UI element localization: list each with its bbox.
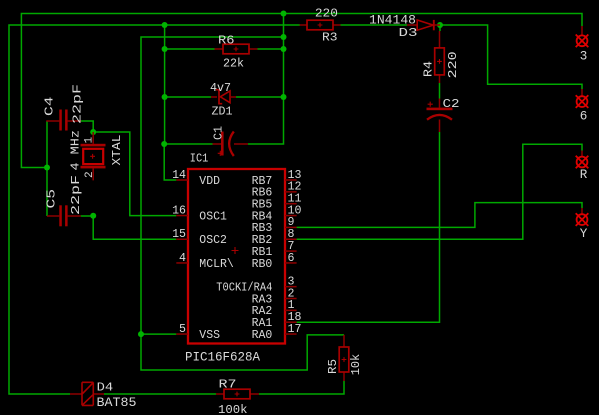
node ZD1 right [281,94,287,100]
pin 16 stub [176,215,188,217]
svg-text:4v7: 4v7 [210,81,231,95]
node XTAL1 / C4 / OSC1 [90,129,96,135]
schottky diode D4 BAT85 [70,393,104,395]
node GND y37 / vertical [281,34,287,40]
op-amp U: IC1 PIC16F628A body [188,169,285,344]
pin 10 stub [285,215,297,217]
wire R6 right wire [258,48,284,50]
node VSS junction [138,331,144,337]
svg-text:2: 2 [84,171,96,178]
svg-text:R3: R3 [322,30,338,44]
zener diode ZD1 4v7 [211,96,236,98]
svg-text:R5: R5 [326,359,340,374]
svg-text:OSC1: OSC1 [199,210,227,223]
node GND rail / vertical [281,11,287,17]
node R6 left [162,46,168,52]
pad 3 stub [581,26,583,36]
wire VSS pin 5 wire [141,333,176,335]
wire bottom rail R7 to D4 [104,393,216,395]
pin 13 stub [285,179,297,181]
svg-text:1N4148: 1N4148 [369,13,416,27]
wire IC pin 9 (RB3) to pad Y [297,203,582,228]
svg-text:D3: D3 [399,26,418,40]
svg-text:15: 15 [172,228,186,241]
node ZD1 left [162,94,168,100]
wire ZD1 left wire [165,96,211,98]
svg-text:6: 6 [288,252,295,265]
diode D3 1N4148 [407,24,440,26]
wire C5 right wire [81,215,94,217]
pin 5 stub [176,333,188,335]
pad R stub [581,151,583,157]
svg-text:C2: C2 [443,97,460,111]
svg-text:MCLR\: MCLR\ [199,258,234,271]
svg-text:22pF: 22pF [69,175,83,215]
svg-text:PIC16F628A: PIC16F628A [185,349,260,364]
svg-text:10k: 10k [349,354,363,376]
pin 17 stub [285,333,297,335]
wire VDD branch to pin 14 [164,144,176,180]
svg-text:3: 3 [580,49,588,63]
svg-text:220: 220 [315,7,338,21]
node C1 left / pin14 branch [161,141,167,147]
svg-text:17: 17 [288,323,302,336]
wire D3 junction to pad 6 [440,25,582,89]
resistor R5 [343,335,345,381]
svg-text:VSS: VSS [199,329,220,342]
wire C1 left wire [164,143,212,145]
pin 2 stub [285,298,297,300]
svg-text:C1: C1 [212,126,226,140]
pad Y stub [581,208,583,214]
pin 18 stub [285,321,297,323]
resistor R7 [216,393,259,395]
svg-text:4 MHz: 4 MHz [68,130,82,171]
pin 14 stub [176,179,188,181]
svg-text:220: 220 [446,51,460,78]
pin 15 stub [176,238,188,240]
capacitor C1 [213,143,249,145]
svg-text:100k: 100k [218,403,248,415]
svg-text:Y: Y [580,227,588,241]
svg-text:RB0: RB0 [252,258,273,271]
pin 11 stub [285,203,297,205]
capacitor C2 [439,99,441,133]
svg-text:ZD1: ZD1 [212,104,233,118]
wire R4 bottom to C2 top [439,83,441,99]
svg-text:XTAL: XTAL [110,135,124,166]
resistor R4 [439,31,441,83]
wire C2 bottom down to IC pin 18 (RA1) [297,132,440,322]
svg-text:4: 4 [179,252,186,265]
node C4-C5 midpoint / GND [44,165,50,171]
pin 6 stub [285,262,297,264]
svg-text:C5: C5 [45,189,59,209]
wire C4 right to XTAL pin1 junction [81,121,93,132]
wire R6 left wire [165,48,215,50]
node XTAL2 / C5 / OSC2 [90,213,96,219]
node D3 cathode / R4 / pad6 net [437,22,443,28]
capacitor C4 [46,120,81,122]
pad 6 [576,95,589,108]
wire VDD rail: top row through R3, left edge down to bottom rail [9,25,300,394]
svg-text:R6: R6 [218,34,235,48]
svg-text:5: 5 [179,323,186,336]
wire ZD1 right wire [236,96,284,98]
wire GND top rail to pad 3 and to C4/C5 midpoint [21,14,582,168]
pin 7 stub [285,250,297,252]
capacitor C5 [47,215,81,217]
wire XTAL pin2/C5 to OSC2 (pin 15) [93,216,176,240]
svg-text:R4: R4 [422,61,436,77]
pad 3 [576,35,589,48]
resistor R6 [215,48,258,50]
pad R [576,156,589,169]
svg-text:R: R [580,168,588,182]
node VDD rail / R6 branch [162,22,168,28]
pin 4 stub [176,262,188,264]
crystal XTAL 4 MHz [92,132,94,180]
wire GND vertical: R6/ZD1/C1 right side [248,14,284,145]
wire IC pin 8 (RB2) to pad R [297,144,582,239]
wire VDD R3 to D3 [341,24,408,26]
svg-text:BAT85: BAT85 [97,396,137,410]
wire D3 junction down to R4 [439,25,441,31]
pin 9 stub [285,226,297,228]
svg-text:R7: R7 [219,377,237,391]
svg-text:22k: 22k [223,57,244,71]
wire C4-C5 left vertical [46,121,48,216]
wire GND branch: y37 rail, down left of IC, under IC to R5 top [141,37,344,370]
svg-text:16: 16 [172,204,186,217]
pin 8 stub [285,238,297,240]
svg-text:VDD: VDD [199,175,220,188]
svg-text:1: 1 [83,137,95,144]
pad Y [576,213,589,226]
pin 3 stub [285,286,297,288]
pad 6 stub [581,89,583,96]
IC1 origin cross [232,247,239,254]
node R6 right [281,46,287,52]
svg-text:C4: C4 [43,97,57,117]
wire VDD vertical feeding R6/ZD1/C1 left [164,25,166,144]
svg-text:6: 6 [580,110,588,124]
resistor R3 [300,24,341,26]
svg-text:OSC2: OSC2 [199,234,227,247]
svg-text:22pF: 22pF [71,84,85,124]
pin 1 stub [285,309,297,311]
svg-text:IC1: IC1 [190,152,209,166]
wire R5 bottom to bottom rail [259,381,344,394]
wire XTAL pin1/C4 to OSC1 (pin 16) [93,132,176,216]
pin 12 stub [285,191,297,193]
svg-text:14: 14 [172,169,186,182]
svg-text:RA0: RA0 [252,329,273,342]
svg-text:D4: D4 [97,381,114,395]
